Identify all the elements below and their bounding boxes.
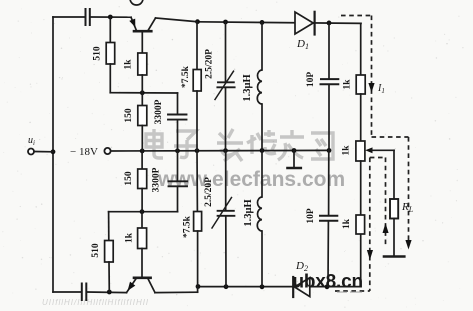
node Q2 base divider: [140, 209, 145, 214]
svg-text:150: 150: [124, 171, 134, 186]
node 2.5/20P bottom junction: [224, 284, 229, 289]
capacitor 3300P top: [177, 93, 179, 114]
resistor 7.5k top: [196, 22, 198, 70]
resistor 150 top: [141, 93, 143, 106]
capacitor C-in top (coupling): [85, 9, 87, 25]
svg-text:2.5/20P: 2.5/20P: [205, 49, 215, 79]
svg-text:10P: 10P: [306, 208, 316, 224]
wire bottom rail left segment: [53, 291, 81, 293]
wire left rail: [52, 17, 54, 292]
svg-text:1k: 1k: [125, 232, 135, 243]
ground RL: [384, 255, 404, 258]
dashed I1 path vertical: [371, 16, 373, 138]
arrow outer down: [405, 240, 411, 250]
wire bias bottom horizontal: [109, 211, 178, 213]
node mid rail L mid: [260, 148, 265, 153]
variable capacitor 2.5/20P top: [225, 22, 227, 82]
svg-text:1.3μH: 1.3μH: [242, 74, 253, 101]
wire top rail left segment: [53, 16, 85, 18]
svg-text:510: 510: [91, 243, 101, 258]
partial circle mark top edge: [130, 0, 143, 5]
resistor 510 bottom: [108, 212, 110, 241]
svg-text:1k: 1k: [342, 145, 352, 156]
node 2.5/20P top junction: [223, 20, 228, 25]
dashed I1 path mid horizontal: [372, 136, 409, 138]
diode D1: [295, 12, 313, 34]
resistor RL: [390, 199, 398, 219]
arrow inner left down: [367, 250, 373, 260]
arrow I1 down: [368, 83, 374, 93]
resistor 1k Q1 base: [138, 53, 147, 75]
svg-text:www.elecfans.com: www.elecfans.com: [157, 168, 345, 191]
node top 510 junction: [108, 15, 113, 20]
diode D2: [295, 278, 310, 297]
capacitor 10P bottom: [328, 150, 330, 215]
dashed bottom horizontal: [335, 290, 370, 292]
svg-text:1.3μH: 1.3μH: [243, 199, 254, 226]
svg-text:3300P: 3300P: [152, 167, 162, 192]
node D1 cathode junction: [327, 21, 332, 26]
node mid rail 3300P top: [175, 148, 180, 153]
resistor 510 top: [109, 17, 111, 43]
variable capacitor 2.5/20P bottom: [225, 151, 227, 211]
watermark tiny marks under ubx8 (decor): [337, 291, 347, 293]
resistor 1k Q2 base: [141, 212, 143, 228]
arrow inner right up: [383, 223, 389, 233]
resistor 7.5k bottom: [196, 151, 198, 212]
inductor L1 1.3uH top: [261, 22, 263, 70]
svg-text:510: 510: [93, 46, 103, 61]
wire top rail Q1 collector to right corner: [156, 18, 199, 22]
wire bottom rail Q2 collector slope: [155, 291, 198, 293]
node mid rail 7.5k mid: [195, 148, 200, 153]
node L2 bottom junction: [260, 284, 265, 289]
transistor Q2: [134, 276, 151, 279]
dashed I1 path top horizontal: [341, 15, 372, 17]
node -18V terminal: [104, 148, 110, 154]
ground: [293, 151, 295, 168]
svg-text:3300P: 3300P: [154, 99, 164, 124]
wire ui stub: [34, 151, 53, 153]
transistor Q1: [134, 30, 151, 33]
svg-text:UIIfllHI/IlfHllfllHIfllfIIHIl: UIIfllHI/IlfHllfllHIfllfIIHIl: [42, 298, 149, 307]
node mid rail 150 top: [140, 149, 145, 154]
node 7.5k bottom junction: [196, 284, 201, 289]
node bottom 510 junction: [107, 290, 112, 295]
dashed inner right vertical: [385, 158, 387, 248]
svg-text:10P: 10P: [306, 72, 316, 88]
watermark chinese chars (decor): [146, 129, 163, 158]
dashed inner left vertical: [369, 158, 371, 292]
svg-text:− 18V: − 18V: [70, 146, 98, 158]
resistor 1k top-right: [356, 75, 365, 94]
wire bottom rail right segment: [198, 286, 361, 288]
wire bias top horizontal: [110, 92, 177, 94]
wire right column: [360, 23, 362, 75]
capacitor 3300P bottom: [177, 151, 179, 181]
wiper arrow into 1k pot: [365, 147, 372, 153]
wire top rail to Q1 emitter: [91, 16, 131, 18]
dashed inner loop top: [370, 157, 386, 159]
node ui terminal: [28, 149, 34, 155]
svg-text:*7.5k: *7.5k: [183, 215, 193, 238]
svg-text:150: 150: [124, 108, 134, 123]
node ui junction: [51, 149, 56, 154]
node Q1 base divider: [140, 90, 145, 95]
svg-text:ubx8.cn: ubx8.cn: [293, 272, 363, 293]
node mid rail ground tap: [292, 148, 297, 153]
node 7.5k top junction: [195, 19, 200, 24]
svg-text:*7.5k: *7.5k: [181, 65, 191, 88]
node L1 top junction: [260, 20, 265, 25]
svg-text:1k: 1k: [342, 218, 352, 229]
node mid rail 10P mid: [327, 148, 332, 153]
capacitor 10P top: [328, 23, 330, 79]
svg-text:1k: 1k: [124, 59, 134, 70]
resistor 1k bottom-right: [356, 215, 365, 234]
svg-text:1k: 1k: [343, 79, 353, 90]
wire RL column: [393, 150, 395, 199]
capacitor C-in bottom (coupling): [81, 284, 83, 301]
svg-text:2.5/20P: 2.5/20P: [204, 177, 214, 207]
node mid rail 2.5/20P mid: [223, 148, 228, 153]
wire mid rail: [111, 149, 329, 152]
potentiometer 1k mid-right: [356, 141, 365, 161]
wire right column bottom: [360, 234, 362, 287]
node D2 junction: [325, 284, 330, 289]
dashed outer right vertical: [408, 137, 410, 240]
resistor 150 bottom: [141, 151, 143, 169]
wire bottom rail to Q2 emitter: [87, 291, 126, 294]
inductor L2 1.3uH bottom: [261, 151, 263, 198]
